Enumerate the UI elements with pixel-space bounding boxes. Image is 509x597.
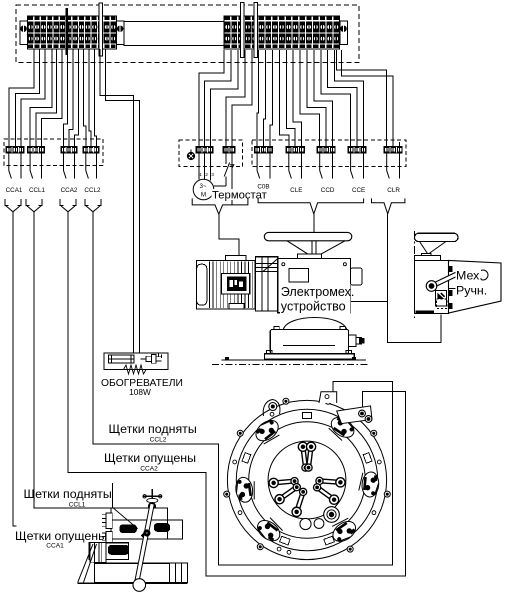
wire: strip to left connector 11 xyxy=(89,49,91,147)
cable clamp CCL1 xyxy=(26,199,29,205)
fastener bolt xyxy=(340,412,344,416)
connector С0В lead wires xyxy=(257,153,260,179)
cable clamp CCA1 xyxy=(5,199,8,205)
brush holder 3 xyxy=(234,476,257,503)
slip ring contact xyxy=(324,507,340,523)
terminal strip end plate right xyxy=(340,21,348,45)
connector group COB xyxy=(254,147,272,153)
connector group CCA1 xyxy=(6,147,24,153)
connector CLR lead wires xyxy=(387,153,390,179)
wire: strip to right connector 12 xyxy=(300,50,320,147)
motor symbol M1 xyxy=(193,179,214,200)
manual override side panel xyxy=(449,260,502,313)
ring window xyxy=(324,536,335,545)
wire: strip to right connector 17 xyxy=(335,50,364,147)
bus bar (black) xyxy=(65,8,68,55)
heater plug xyxy=(141,358,147,360)
ring window xyxy=(363,453,372,464)
actuator motor M xyxy=(197,261,256,310)
wire: strip to left connector 1 xyxy=(9,49,34,147)
wire: strip to heaters 1 xyxy=(100,49,133,353)
heater box xyxy=(104,353,168,370)
wire CCA1 xyxy=(13,212,17,526)
wire: strip to right connector 3 xyxy=(210,50,238,147)
brush holder 5 xyxy=(254,514,286,545)
wire thermostat to motor xyxy=(219,214,239,256)
cable clamp CCL2 xyxy=(85,199,88,205)
wire: strip to left connector 2 xyxy=(15,49,39,147)
label Мех. Ручн. xyxy=(456,270,482,282)
heater element xyxy=(109,355,135,363)
wire: strip to right connector 14 xyxy=(314,50,333,147)
connector group CLE xyxy=(286,147,304,153)
wire: strip to left connector 10 xyxy=(84,49,86,147)
wire: strip to right connector 1 xyxy=(199,50,224,147)
cable clamp motor/thermostat xyxy=(192,198,248,214)
wire CCA2 (outer loop) xyxy=(68,212,406,576)
wire: strip to right connector 18 xyxy=(337,50,387,147)
wire: strip to left connector 9 xyxy=(74,49,78,147)
bottom small circle b xyxy=(314,519,324,529)
wire: strip to right connector 19 xyxy=(342,50,394,147)
terminal block X1-left xyxy=(28,16,117,49)
fastener bolt xyxy=(372,511,376,515)
svg-text:Щетки подняты: Щетки подняты xyxy=(24,487,112,501)
earth screw xyxy=(187,152,194,159)
wire: strip to right connector 10 xyxy=(286,50,295,147)
wire CCL1 riser to switch xyxy=(111,483,113,508)
terminal block X1-right xyxy=(224,16,340,49)
connector CLE lead wires xyxy=(289,153,292,179)
svg-text:Щетки подняты: Щетки подняты xyxy=(109,422,197,436)
svg-text:Щетки опущены: Щетки опущены xyxy=(15,529,107,543)
top-right terminal bracket xyxy=(337,406,372,424)
wire: strip to right connector 5 xyxy=(232,50,252,147)
connector group motor xyxy=(196,147,213,153)
heater resistor zigzag xyxy=(124,365,147,374)
body window xyxy=(289,269,309,283)
connector enclosure right (dashed) xyxy=(252,140,406,167)
ring window xyxy=(303,413,312,419)
brush ring assembly outer circles xyxy=(227,400,386,559)
wire: strip to right connector 16 xyxy=(328,50,357,147)
connector group CCL2 xyxy=(83,147,99,153)
svg-text:CCA2: CCA2 xyxy=(140,465,158,472)
lower left column xyxy=(90,543,106,562)
top terminal strip enclosure (dashed) xyxy=(16,5,359,63)
label Электромех. устройство xyxy=(280,284,351,314)
wire: strip to right connector 13 xyxy=(307,50,326,147)
svg-text:CCA2: CCA2 xyxy=(61,187,78,194)
fastener bolt xyxy=(277,547,281,551)
commutator link 3 xyxy=(274,481,295,483)
svg-text:CCL1: CCL1 xyxy=(29,187,46,194)
svg-text:CCL2: CCL2 xyxy=(84,187,101,194)
wire: strip to left connector 7 xyxy=(64,49,68,147)
connector enclosure thermostat (dashed) xyxy=(179,140,243,167)
motor foot xyxy=(229,303,244,309)
connector group CCL1 xyxy=(27,147,44,153)
terminal strip end plate left xyxy=(20,21,27,45)
wire: strip to right connector 9 xyxy=(279,50,288,147)
declutch box with arrow xyxy=(436,291,447,307)
terminal strip end plate mid xyxy=(116,21,123,45)
wire: strip to right connector 2 xyxy=(205,50,231,147)
svg-text:108W: 108W xyxy=(129,387,151,397)
actuator base plate xyxy=(265,354,355,359)
wire: strip to left connector 6 xyxy=(42,49,63,147)
wire stub CLR c xyxy=(399,142,401,147)
wire: strip to right connector 8 xyxy=(270,50,273,147)
fastener bolt xyxy=(233,460,237,464)
svg-text:3: 3 xyxy=(211,172,214,178)
thermostat wire b xyxy=(231,153,233,205)
wire: strip to right connector 4 xyxy=(226,50,245,147)
ring window xyxy=(280,536,291,545)
mounting lug xyxy=(384,491,390,497)
wire CCL2 (inner loop) xyxy=(93,212,392,565)
connector CCA2 lead wires xyxy=(64,153,67,179)
connector enclosure left (dashed) xyxy=(4,139,103,166)
bus bar (white) right block B xyxy=(254,3,257,58)
grease nipple xyxy=(349,335,356,346)
connector group CCA2 xyxy=(61,147,77,153)
wire: strip to heaters 2 xyxy=(106,49,140,353)
commutator link 2 xyxy=(309,447,312,468)
connector CCE lead wires xyxy=(351,153,354,179)
svg-text:CCA1: CCA1 xyxy=(6,187,23,194)
svg-text:устройство: устройство xyxy=(281,300,346,314)
fastener bolt xyxy=(270,412,274,416)
mounting lug xyxy=(237,430,243,436)
wire handwheel xyxy=(313,214,315,233)
svg-text:CCA1: CCA1 xyxy=(46,543,64,550)
bus bar (white) xyxy=(99,3,102,56)
manual handwheel side view xyxy=(415,233,459,241)
commutator link 7 xyxy=(297,492,303,512)
bottom small circle a xyxy=(300,518,311,529)
top terminal tab xyxy=(319,392,337,403)
actuator flange box xyxy=(270,330,348,354)
cable clamp CLE/CCD/CCE xyxy=(258,198,364,214)
connector CCL2 lead wires xyxy=(86,153,89,179)
commutator link 6 xyxy=(317,487,334,499)
svg-text:2: 2 xyxy=(205,172,208,178)
actuator handwheel xyxy=(264,232,352,240)
svg-text:Щетки опущены: Щетки опущены xyxy=(104,451,196,465)
handwheel spokes xyxy=(287,241,308,254)
wire CCL1 xyxy=(34,212,112,508)
motor conduit box xyxy=(225,256,246,261)
brush lever arm xyxy=(137,504,152,582)
motor terminal plate xyxy=(222,274,250,295)
wire: strip to right connector 6 xyxy=(257,50,259,147)
svg-text:Ручн.: Ручн. xyxy=(456,284,487,298)
connector group thermo xyxy=(223,147,235,153)
wires to motor symbol pins 1 2 3 xyxy=(198,153,200,180)
label Термостат xyxy=(212,189,269,200)
mounting lug xyxy=(371,430,377,436)
wire: strip to left connector 3 xyxy=(21,49,45,147)
manual lever xyxy=(432,274,458,287)
actuator gear column xyxy=(255,257,277,311)
brush holder 6 xyxy=(328,515,360,545)
svg-text:CCE: CCE xyxy=(352,187,365,194)
wire: strip to left connector 4 xyxy=(30,49,52,147)
thermostat contact F1 xyxy=(225,153,227,164)
svg-text:Мех.: Мех. xyxy=(456,269,483,283)
commutator link 4 xyxy=(319,481,340,482)
connector CCL1 lead wires xyxy=(30,153,33,179)
wire: strip to left connector 12 xyxy=(95,49,97,147)
connector CCD lead wires xyxy=(320,153,323,179)
cable clamp CCA2 xyxy=(60,199,63,205)
commutator link 5 xyxy=(280,487,297,499)
terminal strip middle band xyxy=(124,21,224,45)
commutator link 1 xyxy=(303,447,306,468)
wire: strip to right connector 7 xyxy=(264,50,266,147)
mounting lug xyxy=(257,544,263,550)
mechanism ground xyxy=(78,582,188,584)
svg-text:CLR: CLR xyxy=(387,187,400,194)
svg-text:CCD: CCD xyxy=(321,187,335,194)
wire: strip to left connector 5 xyxy=(36,49,57,147)
top-left lug arm xyxy=(263,400,280,417)
actuator main body xyxy=(278,259,351,313)
svg-text:1: 1 xyxy=(199,172,202,178)
brush holder 2 xyxy=(326,413,358,443)
connector CCA1 lead wires xyxy=(9,153,12,179)
svg-text:M: M xyxy=(201,192,206,199)
wire: strip to right connector 11 xyxy=(293,50,301,147)
connector group CLR xyxy=(384,147,402,153)
cable clamp CLR xyxy=(372,198,405,214)
connector group CCD xyxy=(317,147,335,153)
lower switch box xyxy=(89,543,129,560)
wire: strip to right connector 15 xyxy=(321,50,351,147)
mounting lug xyxy=(224,491,230,497)
svg-text:Электромех.: Электромех. xyxy=(281,285,355,299)
actuator dome xyxy=(283,318,347,330)
wire actuator to CLR xyxy=(351,301,388,303)
svg-text:3~: 3~ xyxy=(199,183,206,190)
brush mechanism wing bolt xyxy=(151,489,153,505)
svg-text:CCL1: CCL1 xyxy=(69,501,86,508)
upper switch box xyxy=(111,508,168,539)
mechanism left strut xyxy=(78,544,93,582)
ground line xyxy=(222,359,366,361)
bus bar (white) right block A xyxy=(241,3,244,58)
brush holder 1 xyxy=(252,416,284,447)
mechanism base xyxy=(94,563,169,582)
fastener bolt xyxy=(238,511,242,515)
strut diagonal xyxy=(112,507,138,529)
brush holder 4 xyxy=(358,471,379,498)
switch terminal fingers lower xyxy=(106,532,112,543)
manual override body xyxy=(415,256,441,261)
switch terminal fingers upper xyxy=(106,513,112,529)
lever pivot dot xyxy=(144,530,150,536)
wire CLR to manual override xyxy=(388,214,441,343)
ring window xyxy=(242,453,251,464)
manual override centerline xyxy=(414,231,416,318)
pivot block xyxy=(141,532,149,540)
mounting lug xyxy=(283,398,289,404)
wire: strip to left connector 8 xyxy=(69,49,73,147)
svg-text:CLE: CLE xyxy=(290,187,302,194)
fastener bolt xyxy=(287,550,291,554)
handwheel hub xyxy=(297,254,321,259)
connector group CCE xyxy=(348,147,366,153)
side fitting xyxy=(351,268,363,285)
mounting lug xyxy=(347,546,353,552)
mounting lug xyxy=(325,398,331,404)
svg-text:CCL2: CCL2 xyxy=(150,437,167,444)
fastener bolt xyxy=(377,460,381,464)
